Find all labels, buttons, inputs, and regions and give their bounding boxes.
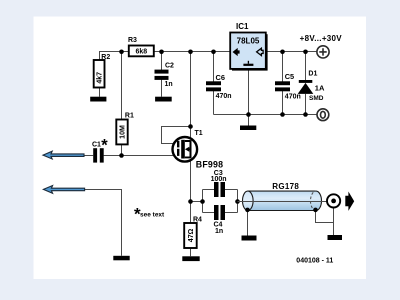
gate bars	[177, 141, 179, 148]
svg-text:1A: 1A	[315, 83, 325, 92]
wire coax centre conductor	[238, 201, 328, 203]
wire coax shield left to ground	[247, 210, 249, 236]
svg-text:47Ω: 47Ω	[188, 228, 195, 242]
ground R2	[90, 97, 106, 102]
node cap pair right junction	[235, 199, 240, 204]
svg-text:470n: 470n	[285, 93, 301, 100]
wire C6 stem bottom	[213, 91, 215, 115]
resistor R4	[184, 223, 197, 248]
node C1/R1 junction	[119, 153, 124, 158]
junction dots	[119, 50, 308, 204]
svg-text:040108 - 11: 040108 - 11	[296, 257, 333, 264]
node C5 bottom junction	[280, 112, 285, 117]
wire source to cap pair stub	[191, 201, 203, 203]
wire cap pair right rail	[237, 190, 239, 213]
svg-text:C2: C2	[165, 63, 174, 70]
svg-text:R1: R1	[125, 112, 134, 119]
node T1 drain junction	[188, 50, 193, 55]
terminal 0 supply	[317, 109, 329, 121]
svg-text:78L05: 78L05	[237, 37, 260, 46]
svg-text:R2: R2	[101, 54, 110, 61]
antenna arrow 1	[43, 151, 84, 159]
svg-text:IC1: IC1	[236, 22, 249, 31]
IC1 voltage regulator 78L05	[230, 33, 267, 71]
svg-text:1n: 1n	[215, 228, 223, 235]
wire R1 vertical from rail	[121, 52, 123, 120]
svg-text:470n: 470n	[216, 93, 232, 100]
svg-text:C5: C5	[285, 72, 294, 81]
wire T1 source down	[190, 160, 192, 223]
wire antenna1 to C1	[84, 155, 93, 157]
capacitor C6	[206, 81, 221, 91]
output arrow	[345, 192, 354, 211]
resistor R1	[116, 120, 127, 145]
svg-text:R3: R3	[128, 37, 137, 44]
wire T1 drain	[190, 52, 192, 139]
ground output	[328, 235, 343, 240]
node C2 junction	[159, 50, 164, 55]
wire top rail right (IC1 to + terminal)	[266, 51, 317, 53]
wire C3 row	[203, 189, 238, 191]
svg-text:*: *	[101, 137, 108, 155]
node C6 junction	[211, 50, 216, 55]
svg-text:C6: C6	[216, 73, 225, 82]
svg-text:100n: 100n	[211, 176, 227, 183]
capacitor C5	[275, 81, 290, 91]
node IC1 ground junction	[246, 112, 251, 117]
svg-text:10M: 10M	[119, 125, 126, 139]
transistor T1 BF998	[173, 137, 198, 162]
wire C2 stem	[161, 52, 163, 71]
substrate arrow	[188, 148, 191, 150]
node D1 bottom junction	[303, 112, 308, 117]
svg-text:T1: T1	[195, 130, 203, 137]
wire bottom rail	[214, 114, 318, 116]
resistor R2	[94, 60, 105, 88]
node C5 top junction	[280, 50, 285, 55]
wire C4 row	[203, 212, 238, 214]
capacitor C1	[93, 148, 104, 162]
ground IC1	[240, 126, 256, 131]
wire R4 to ground	[190, 248, 192, 256]
drain/source right bus	[190, 140, 192, 158]
internal ground mark	[247, 61, 249, 64]
ground R4	[182, 256, 199, 261]
white drawing area	[34, 17, 367, 280]
coax cable RG178	[243, 191, 322, 210]
node coax shield right junction	[313, 208, 318, 213]
antenna arrow 2	[43, 186, 84, 194]
capacitor C3	[214, 182, 225, 197]
svg-text:+8V...+30V: +8V...+30V	[300, 34, 343, 43]
capacitor C4	[214, 205, 225, 220]
wire D1 stem bottom	[305, 94, 307, 115]
label see text	[134, 205, 165, 224]
svg-text:BF998: BF998	[196, 160, 223, 170]
terminal + supply	[317, 46, 329, 58]
wire top rail left (R2 to IC1)	[100, 52, 231, 61]
output arrow (hollow)	[257, 48, 264, 55]
svg-text:see text: see text	[140, 211, 165, 218]
ground C2	[155, 97, 172, 102]
node D1 top junction	[303, 50, 308, 55]
wire C5 stem bottom	[282, 91, 284, 115]
node gate2 loop junction	[188, 124, 193, 129]
capacitor C2	[155, 70, 169, 80]
svg-text:1n: 1n	[165, 81, 173, 88]
wire C2 to ground	[161, 80, 163, 97]
wire C6 stem top	[213, 52, 215, 82]
wire gate2 feedback loop	[162, 127, 191, 144]
wire output connector to ground	[333, 208, 335, 236]
svg-text:R4: R4	[193, 217, 202, 224]
node coax shield left junction	[245, 208, 250, 213]
ground antenna 2	[113, 256, 129, 260]
wire C5 stem top	[282, 52, 284, 82]
wire cap pair left rail	[202, 190, 204, 213]
svg-text:SMD: SMD	[309, 95, 324, 102]
wire coax shield right to ground	[316, 210, 334, 223]
svg-text:4k7: 4k7	[96, 72, 103, 84]
svg-text:6k8: 6k8	[135, 49, 147, 56]
wire C1 to gate1	[104, 155, 178, 157]
diode D1	[298, 80, 314, 94]
output connector	[327, 194, 340, 207]
channel bar	[181, 140, 185, 159]
wire D1 stem top	[305, 52, 307, 81]
wire R1 bottom lead	[121, 144, 123, 155]
input arrow (solid)	[233, 48, 240, 56]
node R3/R1 junction	[119, 50, 124, 55]
node source junction	[188, 199, 193, 204]
svg-text:D1: D1	[308, 71, 317, 78]
wire R2 to ground	[99, 88, 101, 97]
node cap pair left junction	[200, 199, 205, 204]
svg-text:C1: C1	[92, 141, 101, 148]
wire IC1 ground stem	[248, 69, 250, 126]
resistor R3	[129, 46, 154, 57]
ground coax left	[242, 236, 257, 241]
svg-text:RG178: RG178	[272, 182, 299, 191]
wire antenna2 to ground	[85, 190, 122, 256]
